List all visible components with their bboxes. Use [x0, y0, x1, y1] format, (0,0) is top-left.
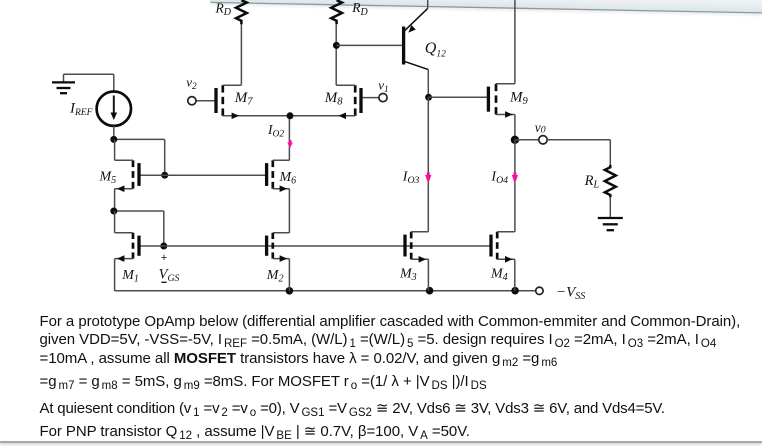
- svg-text:M6: M6: [279, 170, 297, 187]
- svg-text:v0: v0: [535, 120, 546, 136]
- svg-text:v2: v2: [186, 74, 197, 91]
- svg-text:M8: M8: [324, 90, 344, 108]
- svg-text:IO4: IO4: [490, 169, 508, 186]
- svg-text:v1: v1: [378, 77, 388, 94]
- svg-text:IO3: IO3: [402, 169, 420, 186]
- svg-text:M7: M7: [234, 90, 254, 108]
- svg-text:M4: M4: [490, 266, 508, 283]
- svg-text:M3: M3: [399, 266, 417, 283]
- svg-text:+: +: [161, 252, 167, 264]
- svg-text:RL: RL: [584, 173, 600, 191]
- svg-text:M2: M2: [266, 268, 284, 285]
- svg-text:IREF: IREF: [69, 100, 93, 118]
- svg-text:M9: M9: [509, 90, 529, 108]
- svg-text:M5: M5: [99, 169, 117, 186]
- svg-text:−VSS: −VSS: [556, 284, 585, 302]
- svg-text:VGS: VGS: [159, 267, 180, 285]
- svg-text:Q12: Q12: [425, 40, 446, 59]
- svg-text:M1: M1: [121, 268, 139, 285]
- svg-text:IO2: IO2: [267, 122, 284, 140]
